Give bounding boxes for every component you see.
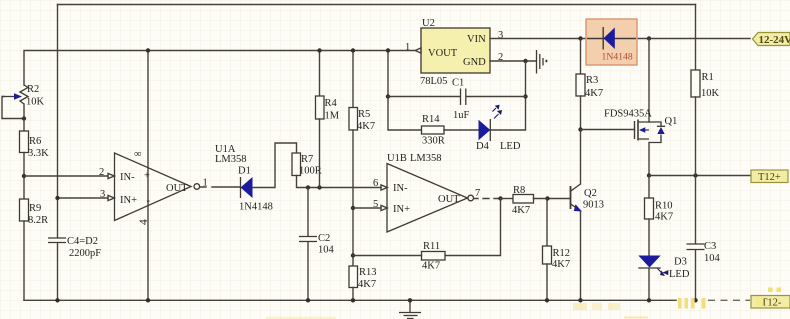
wire R12 bottom lead	[546, 264, 548, 300]
wire node to R8	[501, 198, 514, 200]
svg-text:T12-: T12-	[761, 298, 782, 309]
ground symbol bottom	[399, 300, 421, 318]
svg-text:9013: 9013	[583, 200, 604, 211]
svg-text:12-24V: 12-24V	[759, 34, 790, 46]
junction ground U1A power	[146, 298, 150, 302]
terminal T12+	[751, 170, 788, 183]
junction ground rail C4	[55, 298, 59, 302]
junction rail R4	[317, 48, 321, 52]
svg-text:D4: D4	[476, 141, 490, 152]
wire T12+ line	[649, 175, 751, 177]
svg-text:1N4148: 1N4148	[239, 202, 273, 213]
junction ground rail R13	[351, 298, 355, 302]
svg-text:D3: D3	[674, 257, 687, 268]
svg-text:GND: GND	[463, 57, 486, 68]
junction ground rail D3	[647, 298, 651, 302]
svg-text:R13: R13	[359, 267, 377, 278]
capacitor C4	[48, 236, 101, 259]
svg-text:VIN: VIN	[467, 34, 486, 45]
wire R2 wiper loop	[2, 97, 24, 119]
ground symbol sideways	[537, 50, 548, 74]
resistor R5	[349, 108, 375, 133]
svg-text:2200pF: 2200pF	[69, 248, 101, 259]
svg-text:78L05: 78L05	[420, 76, 447, 87]
wire R4 top lead	[319, 51, 321, 97]
svg-text:R3: R3	[586, 75, 598, 86]
terminal 12-24V	[753, 33, 790, 47]
svg-text:100R: 100R	[299, 166, 322, 177]
wire D3 bottom lead	[648, 268, 650, 300]
wire left sense vertical below C4	[57, 243, 59, 300]
svg-text:6: 6	[373, 178, 378, 189]
svg-text:R11: R11	[423, 241, 440, 252]
svg-text:2: 2	[99, 167, 104, 178]
svg-text:LED: LED	[500, 141, 521, 152]
svg-text:IN-: IN-	[393, 183, 408, 194]
wire R8 to Q2 base	[534, 198, 571, 200]
svg-text:D1: D1	[238, 166, 251, 177]
svg-text:R12: R12	[553, 248, 571, 259]
wire D1 to R7	[253, 143, 297, 188]
svg-text:C4=D2: C4=D2	[67, 236, 98, 247]
wire R5 top lead	[352, 51, 354, 108]
junction ground rail gnd-symbol	[408, 298, 412, 302]
wire C2 bottom lead	[307, 242, 309, 300]
wire top current-sense line	[58, 4, 696, 6]
svg-text:104: 104	[704, 253, 721, 264]
svg-text:LM358: LM358	[410, 153, 442, 164]
wire 5V rail	[24, 51, 415, 86]
junction T12+ node left	[647, 173, 651, 177]
svg-text:T12+: T12+	[758, 172, 781, 183]
svg-text:U2: U2	[422, 18, 435, 29]
wire gnd node down to D4 return	[490, 61, 525, 130]
svg-text:5: 5	[373, 199, 378, 210]
svg-text:FDS9435A: FDS9435A	[604, 109, 652, 120]
svg-text:-: -	[147, 196, 151, 207]
svg-text:8.2R: 8.2R	[28, 215, 48, 226]
wire C1 top left	[388, 96, 460, 98]
wire ground rail faded segment	[708, 299, 750, 301]
wire R10 to D3	[648, 219, 650, 256]
svg-text:330R: 330R	[422, 136, 445, 147]
svg-text:R8: R8	[513, 185, 525, 196]
diode D1	[238, 166, 273, 213]
svg-text:1uF: 1uF	[453, 110, 470, 121]
svg-text:R4: R4	[325, 98, 338, 109]
svg-text:R14: R14	[422, 114, 440, 125]
svg-text:IN+: IN+	[393, 204, 410, 215]
junction T12+ node right	[693, 173, 697, 177]
svg-text:Q2: Q2	[584, 188, 597, 199]
wire R3 top lead	[580, 39, 582, 75]
resistor R12	[543, 246, 571, 270]
svg-text:3: 3	[498, 30, 503, 41]
svg-text:10K: 10K	[701, 88, 720, 99]
svg-text:OUT: OUT	[166, 183, 188, 194]
svg-text:LM358: LM358	[215, 154, 247, 165]
wire Q1 source lead	[648, 39, 650, 123]
svg-text:104: 104	[318, 245, 335, 256]
junction ground rail Q2	[578, 298, 582, 302]
wire R6 to R9	[23, 153, 25, 200]
wire R12 top lead	[546, 199, 548, 247]
svg-text:3: 3	[100, 189, 105, 200]
svg-text:+: +	[144, 171, 150, 182]
wire U2 pin2 to ground symbol	[490, 60, 536, 62]
wire U1B output	[474, 198, 501, 200]
LED D3	[638, 256, 690, 281]
svg-text:1M: 1M	[325, 111, 340, 122]
junction rail Q1 tap	[647, 36, 651, 40]
op-amp U1A	[99, 144, 247, 225]
resistor R1	[691, 70, 720, 99]
wire C2 top lead	[307, 188, 309, 236]
wire C1 top right	[467, 96, 526, 98]
wire R4 bottom lead	[319, 119, 321, 188]
junction C1 gnd tap	[523, 59, 527, 63]
resistor R9	[20, 199, 49, 226]
wire U2 pin3 to 12-24V	[490, 38, 750, 40]
svg-text:4K7: 4K7	[655, 212, 673, 223]
capacitor C1	[452, 78, 470, 122]
transistor Q1 FDS9435A	[604, 109, 677, 143]
potentiometer R2	[2, 84, 45, 108]
wire U1A output	[200, 186, 240, 188]
capacitor C2	[299, 233, 335, 256]
capacitor C3	[687, 241, 721, 264]
wire R3 to Q2 collector	[580, 96, 582, 184]
wire R1 top lead	[695, 5, 697, 71]
resistor R4	[316, 96, 340, 122]
highlighted diode 1N4148	[586, 19, 637, 65]
junction C2 tap	[306, 185, 310, 189]
svg-text:U1B: U1B	[387, 153, 407, 164]
svg-text:C3: C3	[704, 241, 716, 252]
wire R13 bottom lead	[352, 288, 354, 301]
svg-text:VOUT: VOUT	[428, 48, 458, 59]
svg-text:∞: ∞	[134, 149, 142, 160]
svg-text:4: 4	[138, 219, 150, 225]
junction R12 tap	[545, 196, 549, 200]
resistor R7	[292, 153, 322, 177]
svg-text:R5: R5	[358, 109, 370, 120]
svg-text:C1: C1	[452, 78, 464, 89]
wire Q2 emitter down	[580, 212, 582, 301]
junction pin2 tap	[22, 174, 26, 178]
resistor R13	[349, 266, 377, 290]
wire U1A power vertical	[147, 51, 149, 301]
junction rail C1 loop	[386, 48, 390, 52]
resistor R6	[20, 131, 50, 159]
wire left sense vertical	[57, 5, 59, 238]
wire C3 bottom lead	[695, 250, 697, 300]
terminal T12-	[751, 296, 790, 309]
wire R2 to R6	[23, 104, 25, 131]
junction R11 tap	[351, 253, 355, 257]
svg-text:R6: R6	[29, 136, 41, 147]
voltage regulator U2 78L05	[405, 18, 503, 87]
wire Q1 drain down	[648, 143, 650, 176]
junction Q1 gate node	[578, 127, 582, 131]
wire R11 riser	[445, 199, 501, 256]
svg-text:R2: R2	[27, 84, 39, 95]
svg-text:3.3K: 3.3K	[28, 148, 49, 159]
svg-text:C2: C2	[318, 233, 330, 244]
wire R5 down through pin5 and R11 taps	[352, 130, 354, 266]
svg-text:IN-: IN-	[120, 172, 135, 183]
junction R4 tap	[317, 185, 321, 189]
svg-text:LED: LED	[669, 269, 690, 280]
svg-text:4K7: 4K7	[422, 261, 440, 272]
svg-text:4K7: 4K7	[512, 205, 530, 216]
junction ground rail C2	[306, 298, 310, 302]
svg-text:1: 1	[405, 42, 410, 53]
op-amp U1B	[373, 153, 480, 232]
junction C1 right	[523, 94, 527, 98]
svg-text:R7: R7	[301, 154, 313, 165]
svg-text:OUT: OUT	[438, 194, 460, 205]
svg-text:1N4148: 1N4148	[602, 52, 633, 63]
LED D4	[476, 105, 521, 152]
junction R2 bottom	[22, 116, 26, 120]
resistor R3	[576, 74, 603, 99]
wire Q1 gate	[581, 129, 635, 131]
transistor Q2	[571, 184, 605, 212]
svg-text:R10: R10	[655, 201, 673, 212]
resistor R11	[422, 241, 446, 272]
junction U1B pin5 tap	[351, 206, 355, 210]
junction ground rail C3	[693, 298, 697, 302]
svg-text:IN+: IN+	[120, 195, 137, 206]
wire ground rail	[24, 299, 676, 301]
junction C1 left	[386, 94, 390, 98]
wire R11 to R5 column	[353, 255, 422, 257]
svg-text:Q1: Q1	[665, 116, 678, 127]
wire R7 to U1B pin6	[297, 176, 382, 188]
svg-text:4K7: 4K7	[585, 88, 603, 99]
svg-text:R9: R9	[29, 203, 41, 214]
svg-text:7: 7	[475, 188, 480, 199]
junction rail R5	[351, 48, 355, 52]
resistor R8	[512, 185, 534, 216]
junction rail U1A power	[146, 48, 150, 52]
svg-text:10K: 10K	[26, 97, 45, 108]
watermark	[266, 288, 781, 319]
resistor R14	[422, 114, 445, 147]
svg-text:4K7: 4K7	[358, 279, 376, 290]
resistor R10	[645, 198, 674, 223]
junction rail R3 tap	[578, 36, 582, 40]
svg-text:4K7: 4K7	[552, 259, 570, 270]
svg-text:R1: R1	[702, 72, 714, 83]
wire R14 to D4	[444, 129, 479, 131]
junction pin3 tap	[55, 196, 59, 200]
wire U1A pin3 input	[58, 197, 109, 199]
wire R9 to ground rail	[23, 221, 25, 300]
svg-text:4K7: 4K7	[357, 121, 375, 132]
junction ground rail R12	[545, 298, 549, 302]
wire U1B pin5 input	[353, 207, 381, 209]
wire R10 top lead	[648, 176, 650, 199]
wire C1 loop left vertical	[388, 51, 422, 131]
junction output R11 node	[498, 196, 502, 200]
wire U1A pin2 input	[24, 175, 108, 177]
wire R1 bottom to C3	[695, 97, 697, 243]
